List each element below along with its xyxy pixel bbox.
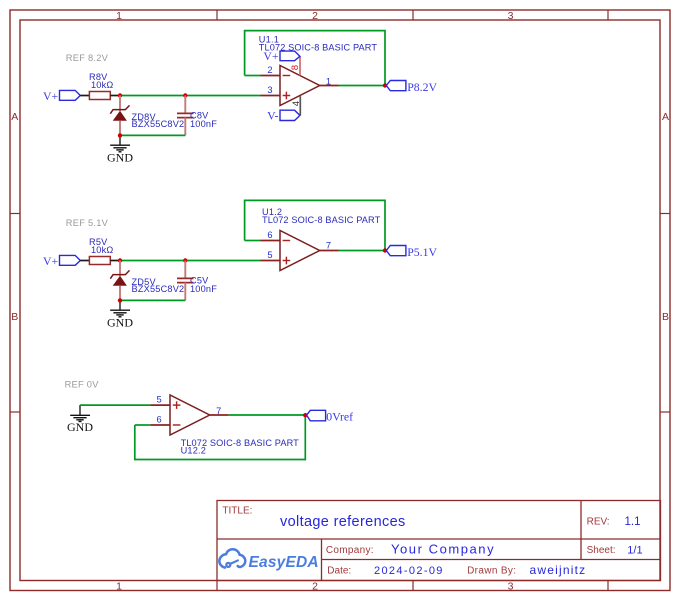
svg-text:2024-02-09: 2024-02-09 [374,565,444,577]
svg-text:2: 2 [312,10,318,22]
svg-text:A: A [662,111,669,123]
title block column line logo [321,539,323,581]
svg-text:GND: GND [107,151,133,165]
svg-text:EasyEDA: EasyEDA [249,554,319,571]
svg-text:Your Company: Your Company [391,542,495,557]
svg-text:Sheet:: Sheet: [587,545,616,556]
port V+ (section 1) [43,89,80,103]
svg-text:2: 2 [267,65,272,75]
port V+ (op-amp power) [263,49,300,63]
junction at ZD5V bottom [118,298,122,302]
svg-text:3: 3 [508,581,514,593]
svg-text:GND: GND [107,316,133,330]
svg-text:6: 6 [267,230,272,240]
svg-text:V+: V+ [263,49,279,63]
wire ZD8V to C8V bottom [120,134,185,136]
op-amp U12.2 [150,395,299,456]
wire node to op-amp pin 3 (green rail) [120,95,261,97]
svg-text:REF 5.1V: REF 5.1V [66,218,109,228]
svg-text:4: 4 [291,100,302,106]
svg-text:8: 8 [290,65,301,70]
svg-text:aweijnitz: aweijnitz [530,563,587,577]
op-amp U1.1 feedback wire [245,31,385,86]
wire R8V to node [110,95,120,97]
title block row line 1 [217,538,661,540]
svg-text:BZX55C8V2: BZX55C8V2 [132,284,185,294]
pin 8 power wire [299,56,301,75]
svg-text:Company:: Company: [326,545,374,556]
svg-text:B: B [662,311,669,323]
op-amp U12.2 feedback wire [135,415,305,459]
junction at C8V top [183,93,187,97]
wire V+ port to R5V [80,260,89,262]
zener diode ZD5V [110,261,184,301]
svg-text:3: 3 [508,10,514,22]
port P8.2V [386,80,437,94]
svg-text:P5.1V: P5.1V [407,245,437,259]
svg-text:voltage references: voltage references [280,514,406,530]
svg-text:5: 5 [157,395,162,405]
svg-text:1: 1 [326,77,331,87]
resistor R8V [89,72,113,100]
svg-text:100nF: 100nF [190,284,217,294]
svg-text:REV:: REV: [587,517,610,528]
svg-text:TL072 SOIC-8 BASIC PART: TL072 SOIC-8 BASIC PART [262,215,381,225]
svg-text:V+: V+ [43,254,59,268]
svg-text:2: 2 [312,581,318,593]
svg-text:REF 8.2V: REF 8.2V [66,53,109,63]
svg-text:A: A [11,111,18,123]
svg-text:1.1: 1.1 [625,516,641,528]
svg-text:U12.2: U12.2 [181,446,207,456]
wire op-amp output to port 0Vref [229,414,306,416]
wire V+ port to R8V [80,95,89,97]
svg-text:5: 5 [267,250,272,260]
port V- (op-amp power) [267,108,300,122]
wire feedback to pin 6 [245,240,261,242]
svg-text:BZX55C8V2: BZX55C8V2 [132,119,185,129]
wire feedback to pin 2 [245,75,261,77]
svg-text:TITLE:: TITLE: [222,506,252,517]
port 0Vref [307,410,354,424]
ground GND (section 2) [107,300,133,329]
junction at C5V top [183,258,187,262]
port P5.1V [386,245,437,259]
svg-text:100nF: 100nF [190,119,217,129]
pin 4 power wire [299,96,301,115]
svg-text:REF 0V: REF 0V [65,380,100,390]
svg-text:7: 7 [326,241,331,251]
svg-text:Date:: Date: [327,566,351,577]
capacitor C8V [177,96,217,136]
svg-text:0Vref: 0Vref [326,410,353,424]
junction at output 0Vref [303,413,307,417]
svg-text:1/1: 1/1 [627,545,642,557]
wire ZD5V to C5V bottom [120,299,185,301]
op-amp U1.2 feedback wire [245,200,385,250]
svg-text:10kΩ: 10kΩ [91,80,113,90]
svg-text:1: 1 [116,581,122,593]
title block row line 2 [322,559,661,561]
wire GND to op-amp pin 5 [80,404,150,406]
svg-text:7: 7 [216,406,221,416]
ground GND (section 3) [67,405,93,434]
title block column line rev [580,501,582,560]
svg-text:B: B [11,311,18,323]
resistor R5V [89,237,113,265]
wire op-amp output to port P5.1V [339,250,386,252]
svg-text:3: 3 [267,85,272,95]
ground GND (section 1) [107,135,133,164]
zener diode ZD8V [110,96,184,136]
svg-text:6: 6 [157,415,162,425]
svg-text:GND: GND [67,420,93,434]
wire R5V to node [110,260,120,262]
port V+ (section 2) [43,254,80,268]
wire node to op-amp pin 5 (green rail) [120,260,261,262]
svg-text:P8.2V: P8.2V [407,80,437,94]
junction at output P5.1V [383,248,387,252]
EasyEDA logo [219,549,318,571]
svg-text:10kΩ: 10kΩ [91,245,113,255]
wire feedback to pin 6 [135,424,151,426]
junction at R5V/ZD5V [118,258,122,262]
svg-text:V-: V- [267,108,278,122]
junction at output P8.2V [383,83,387,87]
capacitor C5V [177,261,217,301]
junction at R8V/ZD8V [118,93,122,97]
svg-text:Drawn By:: Drawn By: [467,566,516,577]
junction at ZD8V bottom [118,133,122,137]
op-amp U1.1 [259,35,378,106]
svg-text:V+: V+ [43,89,59,103]
op-amp U1.2 [261,207,381,271]
svg-text:1: 1 [116,10,122,22]
wire op-amp output to port P8.2V [339,85,386,87]
title block outline [217,501,661,581]
